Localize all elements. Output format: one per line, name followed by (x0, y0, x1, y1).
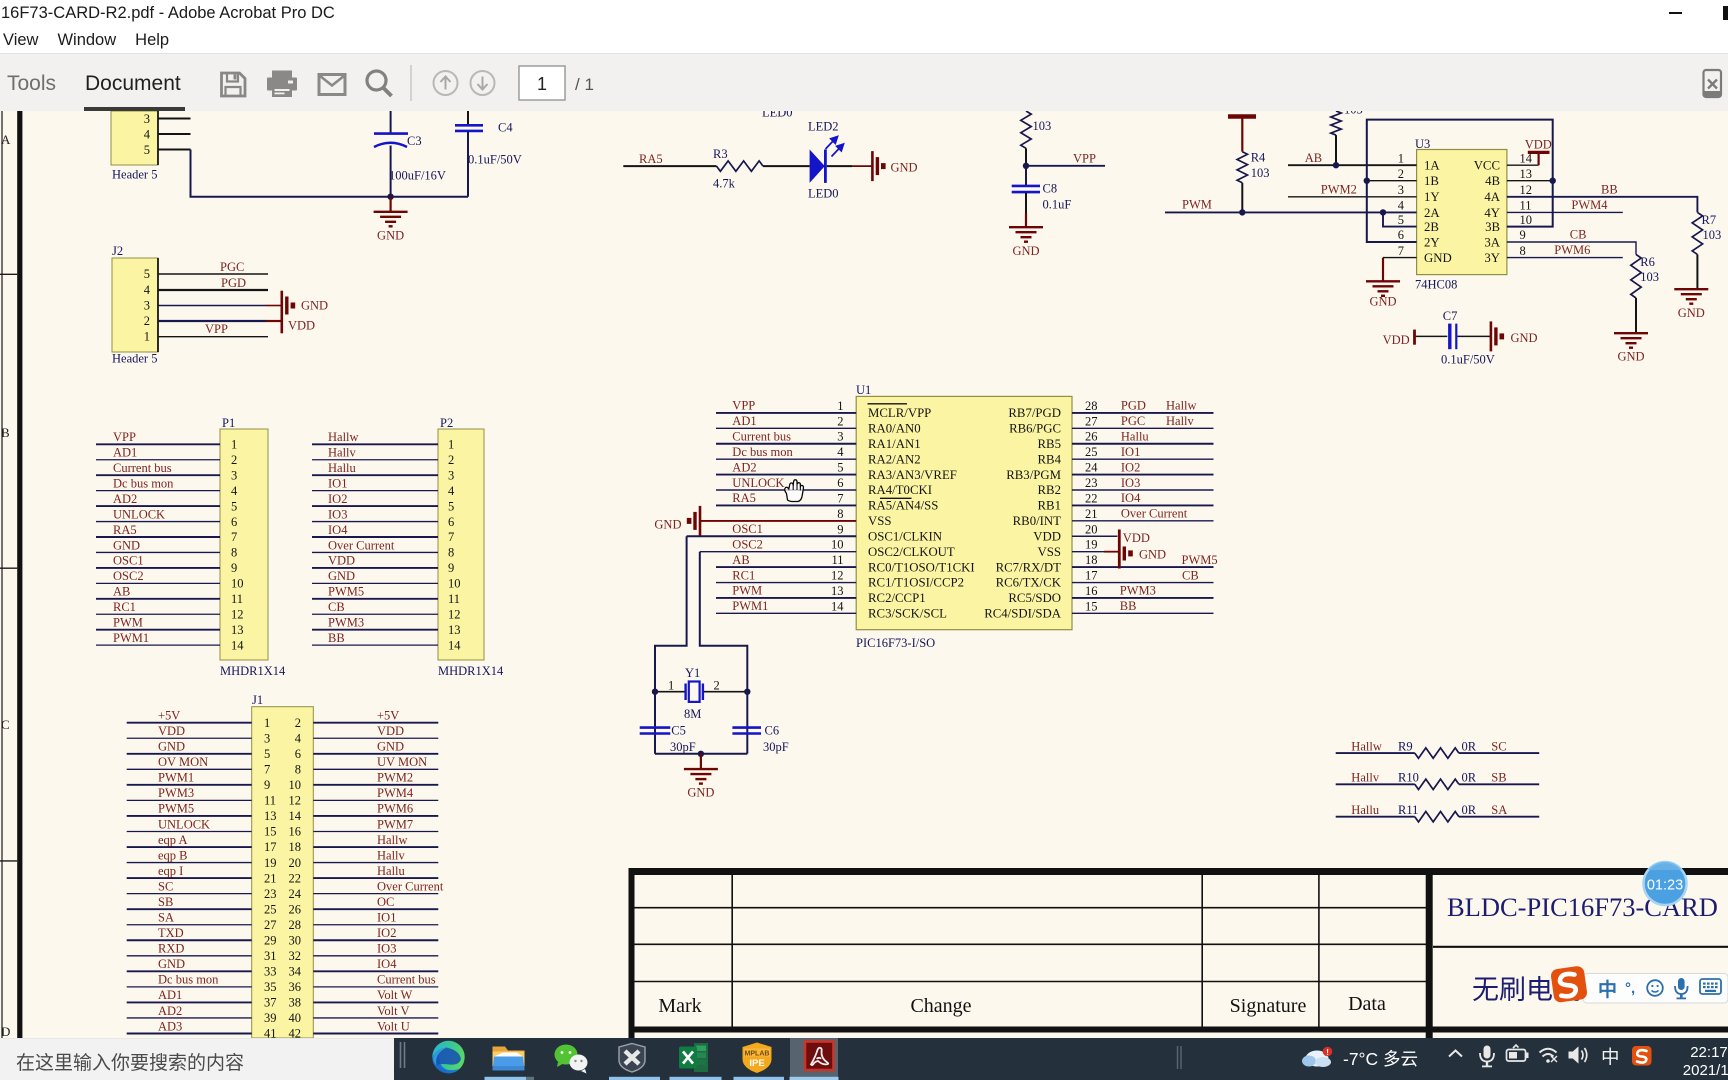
U1 MCLR overbar (868, 403, 908, 405)
svg-text:PWM3: PWM3 (1120, 584, 1156, 598)
wire J1 pin 41 net AD3 (127, 1033, 252, 1035)
svg-text:42: 42 (289, 1027, 302, 1038)
svg-text:4.7k: 4.7k (713, 177, 736, 191)
svg-text:12: 12 (231, 607, 244, 621)
svg-text:2Y: 2Y (1424, 235, 1440, 249)
svg-text:8: 8 (448, 546, 454, 560)
connector header (top, cut) (111, 111, 158, 165)
svg-text:Current bus: Current bus (377, 973, 436, 987)
svg-text:P1: P1 (222, 416, 235, 430)
svg-text:1B: 1B (1424, 174, 1439, 188)
svg-text:VPP: VPP (205, 322, 228, 336)
svg-text:C: C (1, 717, 10, 732)
wire J1 pin 8 net UV MON (313, 768, 438, 770)
svg-text:28: 28 (289, 918, 302, 932)
wire J1 pin 40 net Volt V (313, 1017, 438, 1019)
svg-text:中: 中 (1601, 1047, 1620, 1068)
svg-text:3: 3 (264, 731, 270, 745)
svg-text:PWM1: PWM1 (732, 599, 768, 613)
svg-text:RC4/SDI/SDA: RC4/SDI/SDA (984, 607, 1062, 621)
svg-text:9: 9 (837, 522, 843, 536)
ground GND below R6 (1614, 333, 1648, 348)
svg-text:J1: J1 (252, 693, 263, 707)
resistor R3 4.7k (717, 161, 764, 171)
svg-text:RA5: RA5 (113, 523, 137, 537)
capacitor C5 (640, 726, 671, 729)
wire J2 pin1 VPP (158, 336, 268, 338)
svg-text:13: 13 (448, 623, 461, 637)
svg-text:100uF/16V: 100uF/16V (389, 169, 446, 183)
wire J1 pin 25 net SB (127, 908, 252, 910)
wire U1 pin 24 (1072, 474, 1214, 476)
ground GND below C8 (1009, 227, 1043, 242)
svg-text:RXD: RXD (158, 942, 184, 956)
svg-text:25: 25 (264, 902, 277, 916)
svg-text:12: 12 (831, 569, 844, 583)
wire U1 pin 28 (1072, 412, 1214, 414)
svg-text:74HC08: 74HC08 (1415, 278, 1457, 292)
svg-text:GND: GND (113, 538, 140, 552)
wire header pin5 to C3/C4 net (191, 150, 469, 197)
window minimize button (1669, 12, 1682, 15)
svg-text:Over Current: Over Current (1121, 507, 1188, 521)
svg-text:1A: 1A (1424, 159, 1440, 173)
svg-text:5: 5 (448, 499, 454, 513)
svg-text:B: B (1, 425, 10, 440)
wire U3 pin2 1B (1367, 180, 1417, 182)
wire P1 pin 14 net PWM1 (96, 644, 220, 646)
wire U3 pin5 2B to PWM (1383, 212, 1417, 226)
svg-text:4Y: 4Y (1484, 206, 1500, 220)
taskbar icon X shield (619, 1044, 645, 1073)
svg-text:6: 6 (1398, 228, 1404, 242)
svg-text:IO3: IO3 (377, 942, 396, 956)
svg-text:Current bus: Current bus (113, 461, 172, 475)
svg-text:12: 12 (289, 794, 302, 808)
svg-text:PWM2: PWM2 (377, 771, 413, 785)
taskbar search box (0, 1038, 394, 1080)
header connector spine (157, 111, 159, 165)
svg-text:VDD: VDD (1123, 531, 1150, 545)
svg-text:Data: Data (1348, 993, 1386, 1015)
svg-text:OSC2: OSC2 (113, 569, 144, 583)
svg-text:PIC16F73-I/SO: PIC16F73-I/SO (856, 636, 935, 650)
svg-text:BB: BB (1601, 183, 1618, 197)
wire P1 pin 3 net Current bus (96, 474, 220, 476)
svg-text:10: 10 (1520, 213, 1533, 227)
svg-text:11: 11 (448, 592, 460, 606)
svg-text:Hallv: Hallv (1351, 771, 1380, 785)
svg-text:RA4/T0CKI: RA4/T0CKI (868, 483, 932, 497)
svg-text:33: 33 (264, 965, 277, 979)
svg-text:18: 18 (289, 840, 302, 854)
svg-text:0.1uF: 0.1uF (1043, 198, 1072, 212)
wire Hallu to SA (1336, 816, 1415, 818)
taskbar icon Excel (679, 1043, 708, 1072)
wire header pin stubs (158, 118, 191, 120)
wire U1 pin 5 net AD2 (716, 474, 856, 476)
svg-text:GND: GND (1369, 295, 1396, 309)
wire J1 pin 7 net OV MON (127, 768, 252, 770)
svg-text:5: 5 (144, 267, 150, 281)
svg-text:103: 103 (1640, 270, 1659, 284)
wire R6 to GND (1635, 298, 1637, 333)
svg-text:17: 17 (1085, 569, 1098, 583)
svg-text:27: 27 (1085, 414, 1098, 428)
svg-text:2: 2 (1398, 167, 1404, 181)
svg-text:OC: OC (377, 895, 394, 909)
svg-text:GND: GND (1678, 306, 1705, 320)
svg-text:4: 4 (837, 445, 844, 459)
wire Hallw to SC (1336, 752, 1415, 754)
svg-text:VPP: VPP (113, 430, 136, 444)
Acrobat title bar (0, 0, 1728, 28)
svg-text:1: 1 (537, 74, 547, 94)
node junction 1B/loop (1364, 178, 1370, 184)
svg-text:GND: GND (158, 740, 185, 754)
svg-text:AB: AB (113, 585, 130, 599)
svg-text:VSS: VSS (1038, 545, 1061, 559)
wire J1 pin 12 net PWM4 (313, 799, 438, 801)
svg-text:Hallu: Hallu (1351, 803, 1380, 817)
svg-text:AD1: AD1 (113, 446, 137, 460)
svg-text:RC1: RC1 (732, 568, 755, 582)
svg-text:14: 14 (289, 809, 302, 823)
svg-text:BB: BB (328, 631, 345, 645)
svg-text:C4: C4 (498, 121, 513, 135)
mobile device icon (1704, 70, 1722, 97)
svg-text:8: 8 (231, 546, 237, 560)
svg-text:10: 10 (831, 538, 844, 552)
svg-text:GND: GND (687, 786, 714, 800)
tray Sogou icon (1632, 1046, 1652, 1066)
wire U1 pin 3 net Current bus (716, 443, 856, 445)
node junction PWM/R4 (1239, 209, 1245, 215)
svg-text:°,: °, (1625, 980, 1635, 997)
svg-text:eqp A: eqp A (158, 833, 188, 847)
tray battery (1507, 1045, 1529, 1061)
svg-text:+5V: +5V (158, 709, 180, 723)
wire P1 pin 4 net Dc bus mon (96, 490, 220, 492)
svg-text:Hallv: Hallv (377, 848, 406, 862)
svg-text:41: 41 (264, 1027, 277, 1038)
svg-text:2: 2 (295, 716, 301, 730)
print icon (267, 71, 297, 98)
svg-text:6: 6 (295, 747, 301, 761)
svg-text:AD1: AD1 (732, 414, 756, 428)
svg-text:11: 11 (231, 592, 243, 606)
svg-text:23: 23 (264, 887, 277, 901)
sheet border left edge (1, 111, 3, 1038)
svg-text:RB5: RB5 (1038, 437, 1061, 451)
save icon (222, 73, 246, 96)
svg-text:RC6/TX/CK: RC6/TX/CK (996, 576, 1062, 590)
svg-text:Hallu: Hallu (1121, 430, 1150, 444)
wire J1 pin 30 net IO2 (313, 939, 438, 941)
wire J1 pin 9 net PWM1 (127, 784, 252, 786)
svg-text:2: 2 (448, 453, 454, 467)
svg-text:Signature: Signature (1230, 995, 1307, 1017)
svg-text:Y1: Y1 (685, 666, 700, 680)
svg-text:3A: 3A (1484, 235, 1500, 249)
svg-text:VDD: VDD (1033, 529, 1061, 543)
tray weather cloud (1302, 1047, 1332, 1067)
wire P2 pin 11 net PWM5 (312, 598, 438, 600)
wire P1 pin 6 net UNLOCK (96, 521, 220, 523)
wire J1 pin 42 net Volt U (313, 1033, 438, 1035)
resistor R6 103 (1631, 254, 1641, 298)
wire OSC1 to Y1 (655, 536, 687, 754)
svg-text:RA3/AN3/VREF: RA3/AN3/VREF (868, 468, 957, 482)
wire U1 pin 25 (1072, 458, 1214, 460)
svg-text:PWM5: PWM5 (328, 585, 364, 599)
svg-text:RA0/AN0: RA0/AN0 (868, 422, 921, 436)
svg-text:C6: C6 (765, 724, 780, 738)
node junction C3/GND (387, 194, 393, 200)
wire J1 pin 4 net VDD (313, 737, 438, 739)
svg-text:Hallv: Hallv (1166, 414, 1195, 428)
node junction VPP/C8 (1023, 163, 1029, 169)
svg-text:RB6/PGC: RB6/PGC (1009, 422, 1061, 436)
svg-text:Mark: Mark (658, 995, 701, 1017)
wire J1 pin 20 net Hallv (313, 862, 438, 864)
svg-text:7: 7 (264, 763, 270, 777)
wire P1 pin 1 net VPP (96, 443, 220, 445)
wire PWM4 net (1507, 211, 1623, 213)
wire U3 pin13 4B (1507, 180, 1553, 182)
wire Hallv to SB (1336, 783, 1415, 785)
wire P1 pin 13 net PWM (96, 629, 220, 631)
page up button (434, 71, 458, 95)
wire U1 pin 9 net OSC1 (687, 535, 857, 537)
svg-text:Dc bus mon: Dc bus mon (158, 973, 219, 987)
svg-text:RB3/PGM: RB3/PGM (1006, 468, 1061, 482)
wire U1 pin 26 (1072, 443, 1214, 445)
task view separator (400, 1042, 402, 1068)
svg-text:Hallw: Hallw (328, 430, 359, 444)
svg-text:Current bus: Current bus (732, 430, 791, 444)
svg-text:R11: R11 (1398, 803, 1418, 817)
wire J1 pin 14 net PWM6 (313, 815, 438, 817)
svg-text:PWM: PWM (1182, 198, 1212, 212)
wire J1 pin 32 net IO3 (313, 955, 438, 957)
svg-text:Change: Change (910, 995, 971, 1017)
svg-text:1: 1 (1398, 151, 1404, 165)
resistor R7 103 (1692, 212, 1702, 254)
taskbar icon MPLAB IPE (743, 1043, 772, 1074)
svg-text:VSS: VSS (868, 514, 891, 528)
svg-text:6: 6 (231, 515, 237, 529)
wire P2 pin 10 net GND (312, 582, 438, 584)
svg-text:MHDR1X14: MHDR1X14 (438, 664, 504, 678)
wire J1 pin 16 net PWM7 (313, 830, 438, 832)
wire PWM net (1165, 211, 1417, 213)
svg-text:14: 14 (448, 638, 461, 652)
svg-text:Dc bus mon: Dc bus mon (113, 476, 174, 490)
svg-text:Hallu: Hallu (328, 461, 357, 475)
wire J1 pin 3 net VDD (127, 737, 252, 739)
svg-text:19: 19 (1085, 538, 1098, 552)
svg-text:4: 4 (1398, 199, 1405, 213)
svg-text:PGD: PGD (221, 276, 246, 290)
wire J1 pin 17 net eqp A (127, 846, 252, 848)
wire U1 pin 23 (1072, 489, 1214, 491)
svg-text:1Y: 1Y (1424, 190, 1440, 204)
svg-text:GND: GND (158, 957, 185, 971)
wire P2 pin 3 net Hallu (312, 474, 438, 476)
svg-text:26: 26 (289, 902, 302, 916)
title block table (632, 868, 1728, 1038)
svg-text:PWM6: PWM6 (1554, 243, 1590, 257)
svg-text:OV MON: OV MON (158, 755, 208, 769)
resistor (cut at top) 103 above VPP (1021, 111, 1031, 148)
svg-text:01:23: 01:23 (1647, 878, 1683, 894)
svg-text:32: 32 (289, 949, 302, 963)
svg-text:4: 4 (295, 731, 302, 745)
svg-text:GND: GND (1424, 251, 1452, 265)
svg-text:31: 31 (264, 949, 277, 963)
svg-text:7: 7 (448, 530, 454, 544)
wire J1 pin 6 net GND (313, 753, 438, 755)
wire AB net (1288, 164, 1417, 166)
svg-text:3: 3 (448, 468, 454, 482)
svg-text:Volt W: Volt W (377, 988, 413, 1002)
svg-text:Over Current: Over Current (377, 879, 444, 893)
wire P1 pin 8 net GND (96, 551, 220, 553)
svg-text:UNLOCK: UNLOCK (732, 476, 784, 490)
svg-text:10: 10 (289, 778, 302, 792)
wire U1 pin 17 (1072, 582, 1214, 584)
svg-text:14: 14 (831, 599, 844, 613)
toolbar (0, 54, 1728, 112)
page down button (471, 71, 495, 95)
svg-text:RB7/PGD: RB7/PGD (1008, 406, 1061, 420)
wire J1 pin 13 net PWM5 (127, 815, 252, 817)
wire U1 pin 11 net AB (716, 566, 856, 568)
svg-text:AB: AB (1305, 151, 1322, 165)
svg-text:4: 4 (448, 484, 455, 498)
wire PWM2 net (1288, 196, 1417, 198)
wire U1 pin 15 (1072, 612, 1214, 614)
wire P1 pin 7 net RA5 (96, 536, 220, 538)
svg-text:7: 7 (837, 491, 843, 505)
svg-text:2021/12/: 2021/12/ (1683, 1062, 1728, 1079)
svg-text:12: 12 (448, 607, 461, 621)
svg-text:7: 7 (231, 530, 237, 544)
ground GND power port right of LED0 (872, 151, 885, 181)
svg-text:VDD: VDD (328, 554, 355, 568)
svg-text:RB4: RB4 (1038, 452, 1062, 466)
svg-text:VCC: VCC (1474, 159, 1500, 173)
wire J1 pin 31 net RXD (127, 955, 252, 957)
svg-text:8: 8 (1520, 244, 1526, 258)
svg-text:OSC1: OSC1 (732, 522, 763, 536)
wire R4 to PWM (1241, 183, 1243, 213)
svg-text:30: 30 (289, 933, 302, 947)
wire J2 pin5 PGC (158, 273, 268, 275)
svg-text:AD3: AD3 (158, 1019, 182, 1033)
svg-text:AD1: AD1 (158, 988, 182, 1002)
svg-text:21: 21 (1085, 507, 1098, 521)
svg-text:2: 2 (837, 414, 843, 428)
wire P2 pin 12 net CB (312, 613, 438, 615)
svg-text:IO1: IO1 (377, 911, 396, 925)
U1 T0CKI overbar (880, 497, 912, 499)
wire VPP (1026, 165, 1105, 167)
wire J1 pin 27 net SA (127, 924, 252, 926)
svg-text:R6: R6 (1640, 255, 1655, 269)
Windows taskbar (0, 1038, 1728, 1080)
wire J1 pin 26 net OC (313, 908, 438, 910)
wire P2 pin 8 net Over Current (312, 551, 438, 553)
power bar above R4 (1228, 114, 1256, 119)
svg-text:IO2: IO2 (377, 926, 396, 940)
svg-text:20: 20 (289, 856, 302, 870)
svg-text:中: 中 (1598, 978, 1617, 1001)
wire P1 pin 2 net AD1 (96, 459, 220, 461)
svg-text:OSC2: OSC2 (732, 537, 763, 551)
window corner button (cut) (1723, 6, 1728, 20)
svg-text:LED2: LED2 (808, 120, 839, 134)
svg-text:SA: SA (1491, 803, 1507, 817)
svg-text:9: 9 (231, 561, 237, 575)
ground GND below R7 (1674, 289, 1708, 304)
wire RA5 (623, 165, 716, 167)
power VDD at U3 pin14 (1507, 164, 1539, 166)
wire U1 pin 10 net OSC2 (700, 551, 856, 553)
svg-text:Over Current: Over Current (328, 538, 395, 552)
tray speaker (1569, 1048, 1587, 1063)
ground GND below C3 (390, 197, 392, 212)
svg-text:2: 2 (231, 453, 237, 467)
tray wifi (1540, 1049, 1558, 1063)
svg-text:16: 16 (289, 825, 302, 839)
taskbar icon Edge (432, 1041, 464, 1073)
wire U1 pin 18 (1072, 566, 1214, 568)
wire P2 pin 4 net IO1 (312, 490, 438, 492)
wire R3 to LED0 (763, 165, 810, 167)
svg-text:PWM3: PWM3 (158, 786, 194, 800)
svg-text:RC7/RX/DT: RC7/RX/DT (996, 560, 1062, 574)
svg-text:GND: GND (891, 161, 918, 175)
resistor R11 0R (1415, 812, 1459, 822)
svg-text:5: 5 (1398, 213, 1404, 227)
svg-text:1: 1 (668, 679, 674, 693)
svg-text:IO1: IO1 (328, 476, 347, 490)
wire J2 pin3 to GND (158, 305, 266, 307)
svg-text:3: 3 (144, 299, 150, 313)
svg-text:RA1/AN1: RA1/AN1 (868, 437, 921, 451)
svg-text:1: 1 (231, 438, 237, 452)
svg-text:UV MON: UV MON (377, 755, 427, 769)
svg-text:11: 11 (264, 794, 276, 808)
svg-text:IO3: IO3 (1121, 476, 1140, 490)
svg-text:U1: U1 (856, 383, 871, 397)
svg-text:PWM5: PWM5 (158, 802, 194, 816)
ground GND power port at U1 pin 8 (687, 506, 700, 536)
svg-text:4: 4 (144, 128, 151, 142)
svg-text:CB: CB (1570, 228, 1587, 242)
svg-text:103: 103 (1703, 228, 1722, 242)
svg-text:CB: CB (1182, 568, 1199, 582)
svg-text:40: 40 (289, 1011, 302, 1025)
svg-text:PWM1: PWM1 (158, 771, 194, 785)
svg-text:3Y: 3Y (1484, 251, 1500, 265)
svg-text:6: 6 (837, 476, 843, 490)
svg-text:RC2/CCP1: RC2/CCP1 (868, 591, 926, 605)
capacitor C4 (467, 111, 469, 125)
svg-text:C7: C7 (1443, 309, 1458, 323)
